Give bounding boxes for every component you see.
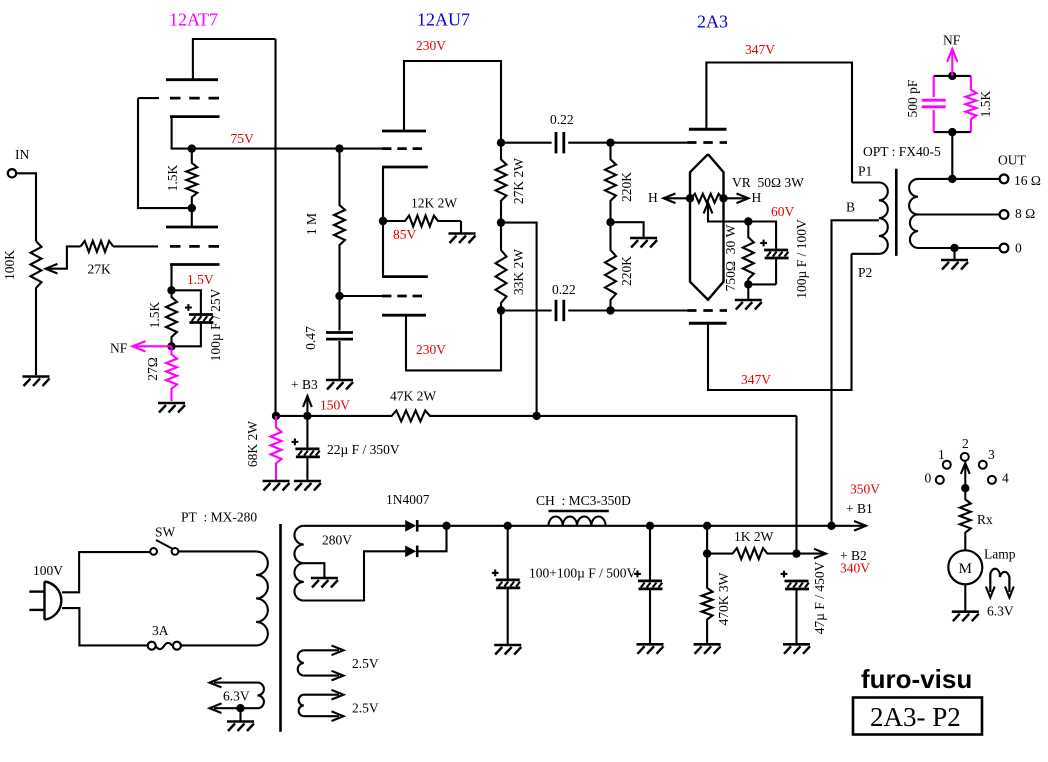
wire B2 drop [706, 526, 708, 554]
wire plate lower to rail [708, 254, 852, 390]
node cap1 top [504, 522, 512, 530]
wire 280V ct [304, 563, 325, 577]
svg-text:350V: 350V [850, 482, 880, 497]
svg-text:12AU7: 12AU7 [417, 10, 470, 30]
svg-text:85V: 85V [393, 227, 417, 242]
svg-text:B: B [846, 200, 855, 215]
wire coupling bot [501, 309, 552, 311]
svg-text:1 M: 1 M [304, 213, 319, 235]
tube 2A3 filament [690, 154, 724, 300]
svg-text:M: M [959, 561, 972, 577]
svg-text:750Ω 30 W: 750Ω 30 W [723, 224, 738, 291]
wire 8ohm tap [918, 213, 1000, 215]
capacitor 0.22 bot [555, 300, 558, 321]
rotary contact 3 [979, 461, 987, 469]
switch SW [150, 548, 157, 555]
ground 27ohm [158, 402, 185, 405]
transformer PT 2.5V b [299, 695, 304, 717]
svg-text:60V: 60V [771, 204, 795, 219]
svg-text:27K 2W: 27K 2W [511, 158, 526, 204]
wire motor gnd [964, 584, 966, 611]
wire cathode lower lead [382, 221, 384, 277]
node plate load bottom [497, 306, 505, 314]
pot wiper arrow [46, 264, 58, 274]
svg-text:3A: 3A [152, 623, 169, 638]
wire plate upper to rail [404, 61, 501, 143]
svg-text:VR 50Ω 3W: VR 50Ω 3W [732, 175, 804, 190]
node B2 left [703, 549, 711, 557]
node NF junction [167, 342, 175, 350]
plug prong 1 [29, 590, 44, 592]
node NF net top [948, 72, 956, 80]
wire coupling bot b [568, 309, 687, 311]
tube 12AT7 cathode upper [170, 115, 220, 118]
node B3 feed junction [532, 412, 540, 420]
wire 280V top [304, 525, 405, 527]
wire 27K to grid [113, 245, 158, 247]
wire B1 line [418, 525, 867, 527]
node 68K top [272, 412, 280, 420]
resistor 220K b [605, 222, 616, 310]
resistor 1K 2W [707, 548, 796, 559]
tube 12AU7 plate upper [382, 130, 426, 133]
resistor 1M [334, 149, 345, 296]
wire 0 gnd lead [953, 248, 955, 260]
svg-text:100K: 100K [2, 250, 17, 280]
node cathode R top [744, 217, 752, 225]
node B2 drop top [703, 522, 711, 530]
svg-text:100+100µ F / 500V: 100+100µ F / 500V [529, 566, 637, 581]
tube 2A3 grid upper [687, 141, 727, 144]
wire IN to pot [16, 173, 36, 241]
capacitor 500pF [933, 76, 935, 97]
wire plate upper to rail [706, 63, 852, 183]
svg-text:3: 3 [988, 447, 995, 462]
svg-text:2: 2 [962, 436, 969, 451]
wire NF arrow [136, 345, 172, 347]
wire 280V bottom [304, 551, 405, 600]
resistor 68K 2W [271, 416, 282, 480]
tube 12AT7 cathode lower [170, 263, 220, 266]
ground cap1 [494, 644, 521, 647]
svg-text:33K 2W: 33K 2W [511, 249, 526, 295]
wire cathode lower lead [170, 265, 172, 291]
wire H arrow right [724, 197, 747, 199]
svg-text:PT : MX-280: PT : MX-280 [181, 510, 257, 525]
transformer PT 2.5V a [298, 650, 304, 675]
node grid1 2A3 [606, 139, 614, 147]
ground pot [23, 375, 50, 378]
svg-text:8 Ω: 8 Ω [1015, 206, 1035, 221]
resistor 1.5K NF [965, 76, 976, 132]
transformer OPT core [895, 169, 898, 256]
resistor 750ohm 30W [743, 222, 754, 285]
svg-text:0.22: 0.22 [552, 282, 576, 297]
rotary wiper [961, 484, 969, 492]
svg-text:NF: NF [110, 341, 128, 356]
svg-text:0.22: 0.22 [550, 112, 574, 127]
svg-text:12K 2W: 12K 2W [411, 196, 457, 211]
wire plate feed vertical [274, 39, 276, 416]
wire B tap [832, 220, 879, 526]
plug prong 2 [29, 609, 44, 611]
ground 470K [694, 643, 721, 646]
svg-text:220K: 220K [619, 256, 634, 286]
tube 2A3 grid lower [687, 309, 727, 312]
wire 47K down to B2 [795, 416, 797, 554]
node D1 out [442, 522, 450, 530]
svg-text:0: 0 [1015, 241, 1022, 256]
wire 6.3V top [214, 682, 258, 684]
wire grid loop [138, 98, 192, 208]
node IN terminal [8, 169, 16, 177]
ground motor [952, 610, 979, 613]
svg-text:0: 0 [925, 471, 932, 486]
wire 16ohm tap [918, 178, 1000, 180]
wire NF net bottom bar [934, 131, 971, 133]
transformer PT 280V winding [294, 526, 303, 601]
svg-text:470K 3W: 470K 3W [716, 572, 731, 625]
wire 2.5Va top [304, 649, 339, 651]
svg-text:H: H [752, 190, 762, 205]
tube 12AU7 plate lower [382, 314, 426, 317]
svg-text:500 pF: 500 pF [905, 79, 920, 117]
svg-text:+ B1: + B1 [846, 501, 873, 516]
svg-text:furo-visu: furo-visu [861, 664, 972, 694]
node B3 [303, 412, 311, 420]
rotary contact 0 [936, 476, 944, 484]
ground OPT 0 [941, 259, 968, 262]
wire B2 arrow [797, 553, 824, 555]
node 1M top [335, 144, 343, 152]
svg-text:SW: SW [155, 525, 176, 540]
svg-text:2.5V: 2.5V [352, 656, 379, 671]
ground 6.3V [227, 720, 254, 723]
capacitor 0.47 [338, 296, 340, 331]
wire plate lower to rail [406, 311, 501, 371]
svg-text:27Ω: 27Ω [145, 357, 160, 381]
wire cathode upper lead [382, 167, 384, 221]
tube 12AT7 plate upper [166, 78, 218, 81]
tube 12AU7 cathode lower [382, 275, 428, 278]
svg-text:347V: 347V [741, 372, 771, 387]
capacitor 47uF/450V [785, 580, 809, 583]
ground 12K [449, 232, 476, 235]
svg-text:1.5K: 1.5K [147, 301, 162, 328]
svg-text:CH : MC3-350D: CH : MC3-350D [536, 493, 631, 508]
tube 12AT7 plate lower [166, 226, 218, 229]
svg-text:1: 1 [938, 447, 945, 462]
tube 12AT7 grid lower [170, 245, 219, 248]
node fil right [719, 194, 727, 202]
capacitor 0.22 top [555, 132, 558, 153]
rotary contact 2 [961, 453, 969, 461]
wire NF vertical [951, 132, 953, 179]
wire plug lower [62, 608, 148, 645]
wire 220K mid to gnd [611, 222, 644, 237]
svg-text:347V: 347V [745, 42, 775, 57]
node 0 gnd [950, 244, 958, 252]
ground 220K [630, 237, 657, 240]
wire to ground 750 [747, 284, 749, 299]
diode D2 1N4007 [405, 546, 416, 558]
resistor 27ohm NF [166, 346, 177, 401]
svg-text:68K 2W: 68K 2W [245, 421, 260, 467]
resistor 33K 2W [496, 223, 507, 311]
tube 12AT7 grid upper [138, 97, 159, 99]
transformer OPT primary [852, 181, 879, 183]
svg-text:1.5K: 1.5K [978, 90, 993, 117]
ground 750ohm [735, 299, 762, 302]
svg-text:75V: 75V [231, 131, 255, 146]
svg-text:+ B3: + B3 [291, 377, 318, 392]
terminal 0 [1000, 244, 1009, 253]
resistor Rx [960, 488, 971, 550]
wire mid to B3 feed [501, 223, 537, 416]
svg-text:22µ F / 350V: 22µ F / 350V [327, 442, 400, 457]
motor M [948, 550, 982, 584]
lamp symbol [990, 569, 1009, 592]
tube 2A3 plate upper [689, 128, 727, 131]
node cathodes [379, 217, 387, 225]
wire plate top rail [193, 39, 276, 80]
svg-text:P1: P1 [858, 164, 872, 179]
wire coupling top [501, 142, 552, 144]
transformer PT 6.3V [258, 683, 264, 709]
resistor 470K 3W [702, 554, 713, 644]
node plate load mid [497, 218, 505, 226]
svg-text:IN: IN [15, 147, 29, 162]
wire node B to lower plate [191, 208, 193, 227]
node cathode R bottom [744, 280, 752, 288]
wire 0 tap [918, 247, 1000, 249]
capacitor 100uF/100V branch [748, 222, 776, 250]
wire fuse to PT [181, 644, 256, 646]
wire B3 arrow [306, 399, 308, 416]
svg-text:1.5V: 1.5V [187, 272, 214, 287]
ground 68K [263, 480, 290, 483]
svg-text:100V: 100V [33, 563, 63, 578]
wire NF arrow up [951, 52, 953, 76]
ground 47uF [783, 643, 810, 646]
svg-text:Rx: Rx [977, 512, 993, 527]
svg-text:OPT : FX40-5: OPT : FX40-5 [863, 144, 941, 159]
node NF net bottom [948, 128, 956, 136]
fuse 3A [148, 642, 156, 650]
wire 75V line [192, 148, 382, 150]
tube 12AU7 grid upper [382, 147, 422, 150]
potentiometer VR 50ohm [690, 194, 724, 203]
svg-text:Lamp: Lamp [984, 547, 1016, 562]
node NF tap [948, 175, 956, 183]
resistor 220K a [605, 143, 616, 223]
wire 2.5Va bot [304, 675, 339, 677]
wire plug upper [62, 552, 150, 592]
svg-text:2.5V: 2.5V [352, 701, 379, 716]
node 6.3V gnd [236, 704, 244, 712]
svg-text:100µ F / 25V: 100µ F / 25V [208, 288, 223, 361]
node B tap join [827, 522, 835, 530]
wire SW to PT [178, 550, 256, 552]
svg-text:1N4007: 1N4007 [386, 492, 430, 507]
terminal 8ohm [1000, 210, 1009, 219]
resistor 1.5K srpp [186, 149, 197, 209]
node plate load top [497, 139, 505, 147]
node B [188, 204, 196, 212]
svg-text:16 Ω: 16 Ω [1014, 173, 1041, 188]
ground 22uF [294, 480, 321, 483]
resistor 47K 2W [307, 410, 796, 421]
ground 280V ct [311, 577, 338, 580]
node 1M bottom [335, 292, 343, 300]
resistor 27K [81, 241, 114, 252]
svg-text:230V: 230V [416, 38, 446, 53]
node B2 right [792, 549, 800, 557]
wire grid2 link [340, 295, 383, 297]
svg-text:1.5K: 1.5K [165, 164, 180, 191]
svg-text:47K 2W: 47K 2W [390, 389, 436, 404]
VR wiper arrow [704, 203, 713, 214]
rotary contact 4 [988, 476, 996, 484]
svg-text:100µ F / 100V: 100µ F / 100V [794, 219, 809, 299]
svg-text:150V: 150V [320, 398, 350, 413]
svg-text:P2: P2 [858, 265, 872, 280]
wire 6.3V gnd lead [239, 708, 241, 721]
title box [853, 698, 982, 735]
tube 12AU7 cathode upper [382, 166, 428, 169]
tube 12AU7 grid lower [382, 295, 422, 298]
ground 0.47 [326, 379, 353, 382]
terminal 16ohm [1000, 175, 1009, 184]
capacitor 100uF b [649, 526, 651, 580]
wire cathode to node A [172, 117, 192, 149]
wire 2.5Vb bot [304, 715, 339, 717]
capacitor 22uF/350V [306, 416, 308, 448]
wire D2 out [419, 526, 447, 552]
ground cap2 [637, 643, 664, 646]
svg-text:H: H [648, 190, 658, 205]
wire B3 node link [276, 415, 307, 417]
choke CH MC3-350D [549, 510, 609, 513]
wire 2.5Vb top [304, 694, 339, 696]
node cathode lower [167, 286, 175, 294]
node fil left [686, 194, 694, 202]
resistor 27K 2W [496, 143, 507, 223]
svg-text:280V: 280V [322, 533, 352, 548]
wire NF net top bar [934, 75, 971, 77]
svg-text:220K: 220K [619, 172, 634, 202]
potentiometer 100K [31, 241, 42, 375]
svg-text:12AT7: 12AT7 [169, 10, 218, 30]
capacitor 100uF a [507, 526, 509, 579]
svg-text:6.3V: 6.3V [987, 604, 1014, 619]
node cap2 top [646, 522, 654, 530]
svg-text:340V: 340V [840, 561, 870, 576]
wire H arrow left [666, 197, 690, 199]
transformer PT primary [256, 551, 268, 645]
wire coupling top b [568, 142, 687, 144]
wire 6.3V bot [214, 707, 258, 709]
resistor 1.5K cathode [166, 290, 177, 346]
tube 2A3 plate lower [689, 322, 727, 325]
transformer PT core [279, 524, 282, 732]
svg-text:6.3V: 6.3V [223, 689, 250, 704]
svg-text:1K 2W: 1K 2W [734, 529, 774, 544]
svg-text:230V: 230V [416, 342, 446, 357]
node A [188, 144, 196, 152]
svg-text:2A3- P2: 2A3- P2 [870, 702, 961, 732]
rotary contact 1 [943, 461, 951, 469]
svg-text:27K: 27K [88, 262, 112, 277]
svg-text:0.47: 0.47 [303, 326, 318, 350]
svg-text:47µ F / 450V: 47µ F / 450V [812, 561, 827, 634]
resistor 12K 2W [383, 216, 461, 227]
AC plug [45, 582, 62, 620]
svg-text:2A3: 2A3 [697, 12, 728, 32]
diode D1 1N4007 [405, 520, 416, 532]
node grid2 2A3 [606, 306, 614, 314]
svg-text:OUT: OUT [998, 153, 1026, 168]
node 220K mid [606, 218, 614, 226]
svg-text:NF: NF [943, 33, 961, 48]
capacitor 100uF/25V branch [172, 290, 201, 313]
svg-text:4: 4 [1002, 471, 1009, 486]
transformer OPT secondary [909, 179, 918, 215]
